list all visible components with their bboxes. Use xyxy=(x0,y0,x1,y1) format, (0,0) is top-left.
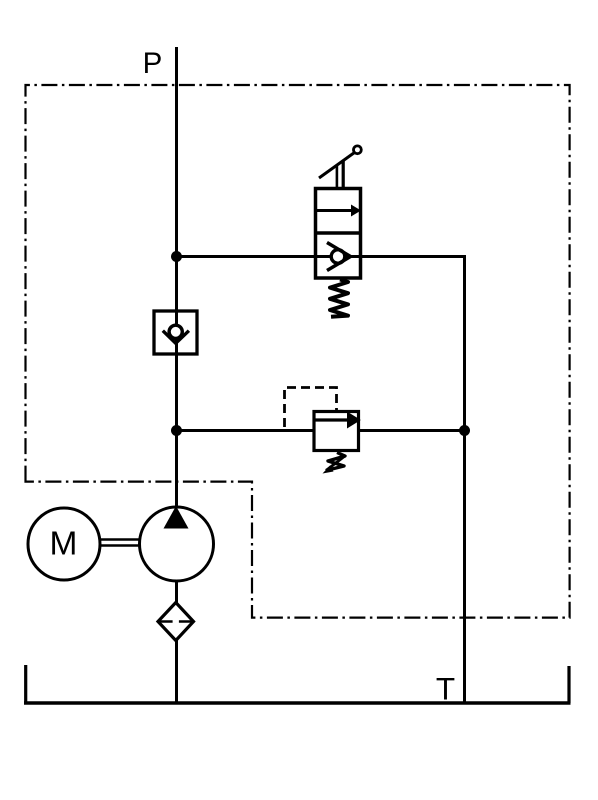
svg-text:T: T xyxy=(436,671,455,707)
svg-text:M: M xyxy=(50,526,78,563)
svg-text:P: P xyxy=(143,47,163,80)
